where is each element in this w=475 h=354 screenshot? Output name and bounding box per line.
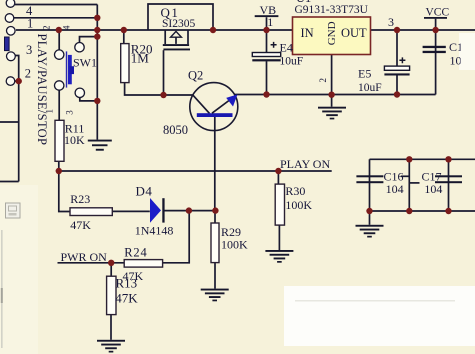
svg-text:104: 104 xyxy=(386,182,404,196)
svg-text:2: 2 xyxy=(41,26,51,31)
svg-text:G9131-33T73U: G9131-33T73U xyxy=(295,4,369,16)
svg-text:8050: 8050 xyxy=(163,123,188,137)
svg-text:47K: 47K xyxy=(70,218,91,232)
svg-text:4: 4 xyxy=(61,25,71,30)
svg-text:1M: 1M xyxy=(131,51,150,66)
svg-text:100K: 100K xyxy=(285,198,312,212)
svg-text:GND: GND xyxy=(326,21,338,45)
svg-text:R13: R13 xyxy=(116,276,138,291)
svg-text:100K: 100K xyxy=(221,238,248,252)
svg-text:PWR ON: PWR ON xyxy=(61,250,108,264)
svg-text:R24: R24 xyxy=(124,246,147,260)
svg-text:D4: D4 xyxy=(136,183,153,198)
svg-text:3: 3 xyxy=(65,110,75,115)
svg-text:PLAY/PAUSE/STOP: PLAY/PAUSE/STOP xyxy=(35,34,49,146)
svg-text:E4: E4 xyxy=(280,41,293,55)
svg-text:3: 3 xyxy=(388,15,394,29)
svg-text:VCC: VCC xyxy=(426,7,450,19)
svg-text:OUT: OUT xyxy=(341,26,367,40)
svg-text:10uF: 10uF xyxy=(280,56,304,68)
svg-text:1N4148: 1N4148 xyxy=(135,224,174,238)
svg-text:3: 3 xyxy=(26,43,32,57)
svg-text:1: 1 xyxy=(27,16,33,30)
svg-text:2: 2 xyxy=(25,67,31,81)
svg-text:R23: R23 xyxy=(70,192,90,206)
svg-text:47K: 47K xyxy=(115,291,138,306)
svg-text:Q2: Q2 xyxy=(188,69,203,83)
svg-text:10uF: 10uF xyxy=(358,82,382,94)
svg-text:104: 104 xyxy=(424,182,442,196)
svg-text:1: 1 xyxy=(267,15,273,29)
svg-text:SI2305: SI2305 xyxy=(162,18,195,30)
svg-text:IN: IN xyxy=(301,26,314,40)
svg-text:R30: R30 xyxy=(285,184,305,198)
svg-text:PLAY ON: PLAY ON xyxy=(280,157,330,171)
svg-text:E5: E5 xyxy=(358,67,371,81)
svg-text:2: 2 xyxy=(318,78,328,83)
svg-text:SW1: SW1 xyxy=(73,56,97,70)
svg-text:10K: 10K xyxy=(64,133,85,147)
